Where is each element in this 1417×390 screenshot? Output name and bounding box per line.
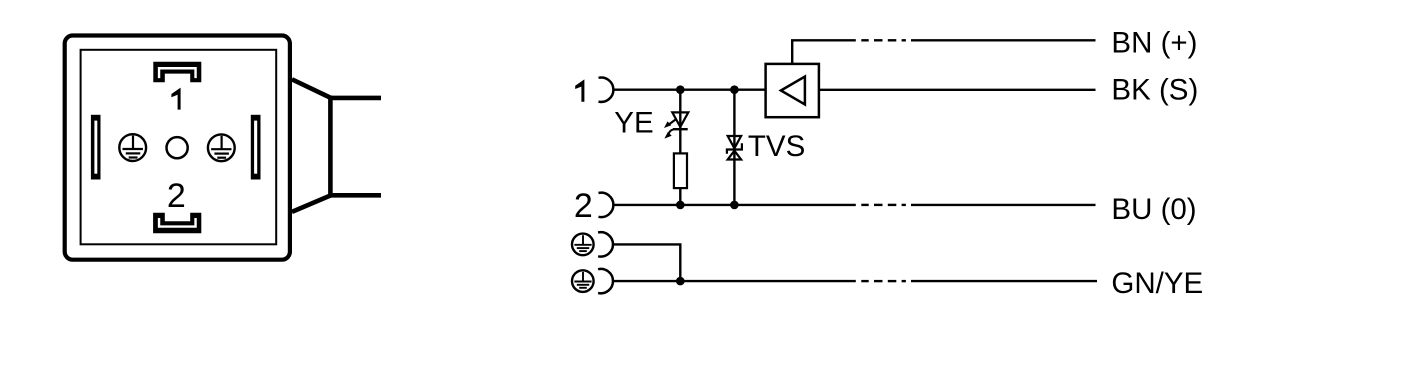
pin 1 contact — [153, 62, 201, 82]
earth contact right — [208, 134, 235, 161]
svg-text:BN (+): BN (+) — [1111, 26, 1197, 59]
svg-text:BK (S): BK (S) — [1111, 74, 1198, 107]
label BK (S) — [1111, 74, 1198, 107]
connector inner face — [81, 50, 277, 245]
svg-text:GN/YE: GN/YE — [1111, 267, 1203, 300]
junction node TVS branch on line 2 — [730, 201, 739, 210]
earth pin upper symbol — [572, 234, 594, 256]
earth pin lower symbol — [572, 270, 594, 292]
TVS label — [748, 130, 805, 163]
wire amplifier to BN — [792, 40, 856, 64]
wire BU solid — [911, 204, 1096, 206]
wire BN dashed — [861, 39, 906, 41]
label BN (+) — [1111, 26, 1197, 59]
LED label YE — [614, 106, 653, 139]
wire BK — [819, 89, 1096, 91]
earth pin lower socket contact — [598, 269, 613, 293]
LED D1 — [664, 112, 688, 138]
TVS diode — [727, 136, 742, 160]
wire pin 2 — [613, 204, 855, 206]
wire earth upper — [613, 244, 680, 281]
wire GN/YE solid — [911, 280, 1097, 282]
pin 2 socket contact — [599, 193, 614, 217]
amplifier U1 — [766, 64, 819, 117]
junction node LED branch on line 2 — [676, 201, 685, 210]
svg-text:BU (0): BU (0) — [1111, 193, 1196, 226]
wire GN/YE dashed — [861, 280, 906, 282]
TVS branch wire — [733, 90, 735, 205]
wire BU dashed — [861, 204, 906, 206]
pin 1 number — [171, 88, 180, 110]
connector housing — [65, 36, 290, 260]
schematic pin 1 label — [575, 79, 584, 101]
wire BN solid — [911, 39, 1096, 41]
label GN/YE — [1111, 267, 1203, 300]
pin 2 number — [167, 177, 186, 215]
center hole — [167, 137, 188, 158]
cable stub top — [330, 96, 381, 101]
earth contact left — [119, 134, 146, 161]
label BU (0) — [1111, 193, 1196, 226]
pin 1 socket contact — [599, 78, 614, 102]
cable stub bottom — [330, 193, 381, 198]
junction node TVS branch on line 1 — [730, 85, 739, 94]
svg-text:2: 2 — [574, 187, 593, 225]
junction node LED branch on line 1 — [676, 85, 685, 94]
earth pin upper socket contact — [598, 232, 613, 256]
svg-text:YE: YE — [614, 106, 653, 139]
schematic pin 2 label — [574, 187, 593, 225]
svg-text:2: 2 — [167, 177, 186, 215]
wire GN/YE — [613, 280, 856, 282]
coding slot left — [91, 115, 101, 180]
coding slot right — [251, 115, 261, 180]
junction node earth wires — [676, 277, 685, 286]
pin 2 contact — [153, 213, 201, 234]
wire pin1 to amplifier — [613, 88, 765, 90]
svg-text:TVS: TVS — [748, 130, 805, 163]
cable gland — [292, 79, 331, 212]
resistor R1 — [674, 153, 687, 188]
LED branch wire — [679, 90, 681, 205]
